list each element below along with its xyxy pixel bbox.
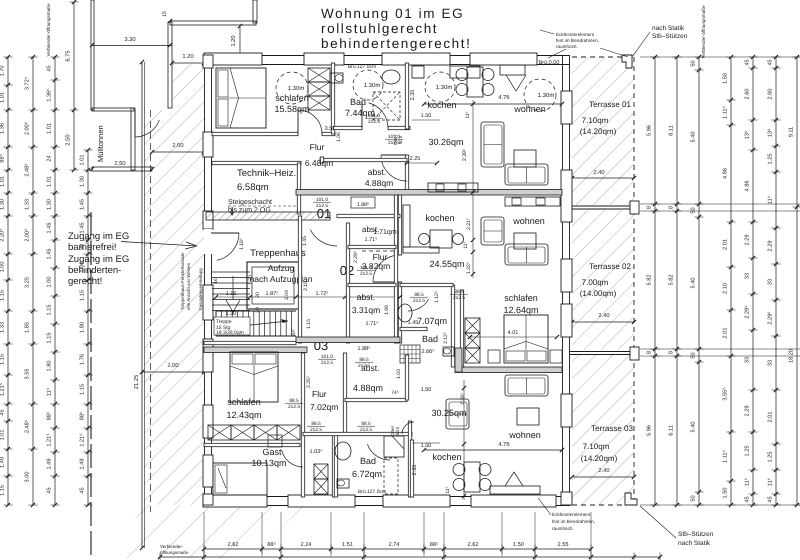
nightstand s02 l [488, 350, 500, 363]
svg-text:gerecht!: gerecht! [68, 276, 102, 287]
svg-text:Steigeschacht: Steigeschacht [228, 198, 272, 206]
dim chain right 5 [752, 57, 754, 505]
svg-text:212.5: 212.5 [453, 295, 465, 301]
svg-text:nach Statik: nach Statik [678, 540, 711, 547]
door bad01 [369, 103, 388, 128]
elevator shaft [247, 262, 299, 309]
west wall pier 3 [203, 211, 213, 229]
wall bad03 east [408, 421, 411, 497]
dim chain bottom 1 [204, 548, 591, 550]
svg-text:2.00⁵: 2.00⁵ [25, 228, 31, 241]
svg-text:Eckfensterelement: Eckfensterelement [552, 512, 591, 517]
niche 1.88 apt01 [351, 197, 375, 208]
svg-text:1.33: 1.33 [0, 322, 6, 333]
svg-text:212.5: 212.5 [358, 363, 370, 369]
stair wall south [204, 341, 296, 344]
wall corridor03 east upper [343, 353, 346, 434]
stairs arrow [222, 321, 288, 328]
svg-text:19.3/28.0qm: 19.3/28.0qm [216, 330, 244, 336]
svg-text:1.88⁵: 1.88⁵ [357, 202, 369, 208]
svg-text:1.49: 1.49 [0, 457, 6, 468]
svg-text:1.15: 1.15 [0, 290, 6, 301]
svg-text:2.60: 2.60 [768, 89, 774, 100]
south wall pier 1 [203, 495, 267, 507]
south wall pier 4 [471, 495, 556, 507]
wall corridor03 west [301, 353, 304, 497]
svg-text:Verblender-öffnungsmaße: Verblender-öffnungsmaße [701, 5, 706, 58]
svg-text:1.87⁵: 1.87⁵ [266, 291, 279, 297]
svg-text:2.40: 2.40 [598, 312, 609, 319]
svg-text:3.55: 3.55 [25, 369, 31, 380]
svg-text:1.11⁵: 1.11⁵ [723, 106, 729, 119]
wall schlafen01 south [212, 132, 298, 135]
dim 2.40 T01 [572, 177, 634, 179]
sofa01 right [505, 164, 548, 185]
svg-text:8: 8 [647, 351, 653, 354]
svg-text:2.21⁵: 2.21⁵ [466, 218, 472, 230]
wall bad03 west [334, 434, 337, 497]
svg-text:raumhoch.: raumhoch. [552, 526, 574, 531]
svg-text:15: 15 [162, 11, 168, 17]
wing north wall high [170, 21, 256, 25]
wall abst01 top [320, 158, 407, 161]
dim chain left 1 [7, 57, 9, 505]
bad01 shower [373, 92, 400, 120]
dim chain right 4 [730, 57, 732, 505]
west wall pier 4 [203, 285, 213, 320]
wing dim 3.30 line [92, 45, 172, 47]
west wall pier 5 [203, 339, 213, 372]
svg-text:1.06: 1.06 [336, 132, 342, 142]
svg-text:5.82: 5.82 [647, 275, 653, 286]
svg-text:1.01: 1.01 [80, 155, 86, 166]
svg-text:6.11: 6.11 [669, 125, 675, 135]
svg-text:212.5: 212.5 [316, 203, 328, 209]
svg-text:abst.: abst. [368, 167, 386, 177]
bad03 wc [337, 479, 349, 488]
wing east wall high [253, 0, 257, 23]
wall gast north [204, 443, 300, 446]
svg-text:6.11: 6.11 [669, 425, 675, 435]
wall flur/kochen x407 [405, 63, 408, 129]
svg-text:4.76: 4.76 [498, 94, 509, 101]
svg-text:1.00: 1.00 [47, 277, 53, 288]
svg-text:(14.20qm): (14.20qm) [581, 454, 618, 463]
svg-text:2.40: 2.40 [598, 467, 609, 474]
stairs outline [216, 310, 296, 312]
svg-text:88⁵: 88⁵ [267, 542, 276, 548]
svg-text:Fassadenverkleidung: Fassadenverkleidung [198, 268, 203, 310]
wall schlafen01/bad [331, 63, 334, 134]
south wall pier 2 [288, 495, 355, 507]
svg-text:1.36⁵: 1.36⁵ [47, 88, 53, 101]
dim 2.40 T03 [572, 476, 634, 478]
nightstand s02 r [550, 350, 562, 363]
wall abst03 [345, 398, 407, 401]
svg-text:2.40: 2.40 [593, 169, 604, 176]
svg-text:2.29: 2.29 [768, 241, 774, 252]
muelltonnen door arc [135, 120, 159, 137]
svg-text:(14.00qm): (14.00qm) [580, 289, 617, 298]
svg-text:1.30: 1.30 [226, 311, 237, 317]
svg-text:1.70: 1.70 [0, 66, 6, 77]
svg-text:5.82: 5.82 [669, 275, 675, 286]
column NE [622, 55, 632, 68]
entrance door arcs [211, 232, 239, 234]
terrace divider 2 [570, 351, 634, 353]
svg-text:7.10qm: 7.10qm [582, 116, 609, 125]
svg-text:rollstuhlgerecht: rollstuhlgerecht [321, 21, 438, 36]
svg-text:33: 33 [745, 357, 751, 363]
svg-text:Verblender-: Verblender- [160, 544, 184, 549]
door bad02 [408, 299, 429, 311]
east wall pier 2 [561, 170, 572, 222]
svg-text:2.29⁵: 2.29⁵ [745, 305, 751, 318]
corridor wall east x400 [398, 195, 401, 255]
svg-text:öffnungsmaße: öffnungsmaße [160, 550, 189, 555]
svg-text:1.30m: 1.30m [436, 84, 453, 91]
svg-text:1.25: 1.25 [768, 452, 774, 463]
svg-text:212.5: 212.5 [310, 427, 322, 433]
north wall pier 1 [204, 53, 262, 65]
svg-text:1.30: 1.30 [80, 176, 86, 187]
svg-text:88⁵: 88⁵ [47, 412, 53, 421]
dim chain left 2 [32, 57, 34, 505]
svg-text:1.01: 1.01 [0, 92, 6, 103]
svg-text:Bad: Bad [350, 97, 366, 107]
svg-text:barrierefrei!: barrierefrei! [68, 242, 117, 253]
svg-text:1.15: 1.15 [47, 305, 53, 316]
dim 1.20 vert [239, 26, 241, 56]
yard hatch [110, 505, 305, 558]
svg-text:1.71⁵: 1.71⁵ [366, 321, 379, 327]
terrace dashed top [572, 56, 634, 58]
svg-text:3.55⁵: 3.55⁵ [723, 387, 729, 400]
walkway left edge [141, 62, 143, 548]
svg-text:1.50: 1.50 [421, 387, 432, 393]
svg-text:6.75: 6.75 [65, 50, 72, 61]
svg-text:schlafen: schlafen [275, 93, 309, 103]
svg-text:33: 33 [745, 273, 751, 279]
table01 [514, 150, 536, 167]
svg-text:88⁵: 88⁵ [0, 154, 6, 163]
east wall lines [562, 55, 564, 505]
svg-text:7.00qm: 7.00qm [582, 278, 609, 287]
svg-text:2.29⁵: 2.29⁵ [768, 311, 774, 324]
svg-text:1.30: 1.30 [0, 199, 6, 210]
svg-text:6.58qm: 6.58qm [237, 182, 269, 193]
svg-text:1.20: 1.20 [230, 35, 237, 46]
svg-text:Brü.127.0cm: Brü.127.0cm [358, 489, 386, 495]
wall abst02 east [394, 195, 397, 343]
svg-text:1.71⁵: 1.71⁵ [365, 237, 378, 243]
svg-text:kochen: kochen [432, 452, 461, 462]
north wall pier 3 [382, 53, 450, 65]
svg-text:12.43qm: 12.43qm [226, 410, 261, 420]
svg-text:21.25: 21.25 [133, 375, 140, 390]
west wall pier 1 [203, 55, 213, 68]
svg-text:2.50: 2.50 [114, 160, 125, 167]
circle 1.30 bad01 [353, 70, 383, 100]
dim chain right 1 [654, 57, 656, 505]
svg-text:2.25: 2.25 [410, 156, 421, 162]
svg-text:Wohnung 01 im EG: Wohnung 01 im EG [321, 6, 464, 21]
svg-text:4.86: 4.86 [723, 168, 729, 179]
entrance door gap [204, 229, 212, 254]
svg-text:2.48⁵: 2.48⁵ [25, 163, 31, 176]
svg-text:1.21⁵: 1.21⁵ [47, 433, 53, 446]
wall abst02 west [346, 223, 349, 343]
svg-text:licht: licht [395, 426, 400, 435]
svg-text:3.25: 3.25 [25, 277, 31, 288]
svg-text:behindertengerecht!: behindertengerecht! [321, 36, 472, 51]
svg-text:1.80: 1.80 [47, 361, 53, 372]
party wall 02/03 west [204, 347, 307, 353]
stair wall east [298, 216, 301, 343]
svg-text:45: 45 [47, 65, 53, 71]
svg-text:15.58qm: 15.58qm [274, 104, 309, 114]
dining table 01 [467, 67, 483, 97]
svg-text:11⁵: 11⁵ [463, 241, 469, 248]
bad02 wc [443, 347, 454, 356]
closet schlafen01 [308, 68, 330, 82]
svg-text:2.55: 2.55 [558, 542, 569, 548]
svg-text:1.11⁵: 1.11⁵ [723, 450, 729, 463]
svg-text:2.48⁵: 2.48⁵ [25, 420, 31, 433]
svg-text:8: 8 [669, 351, 675, 354]
svg-text:5.40: 5.40 [691, 422, 697, 433]
svg-text:Treppenhaus-Fensterfassade: Treppenhaus-Fensterfassade [180, 252, 185, 310]
svg-text:1.01: 1.01 [47, 123, 53, 134]
west wall pier 8 [203, 494, 213, 505]
svg-text:2.10: 2.10 [723, 283, 729, 294]
dim 3.30 [90, 43, 94, 47]
svg-text:5.96: 5.96 [647, 425, 653, 436]
bottom ext lines [203, 512, 205, 556]
svg-text:1.50: 1.50 [723, 488, 729, 499]
bed schlafen01 [216, 68, 266, 128]
stair dim line [216, 296, 400, 298]
east wall pier 6 [561, 492, 572, 505]
svg-text:45: 45 [0, 409, 6, 415]
svg-text:1.88⁵: 1.88⁵ [358, 346, 371, 352]
svg-text:3.00: 3.00 [25, 472, 31, 483]
svg-text:33: 33 [768, 279, 774, 285]
svg-text:Stb–Stützen: Stb–Stützen [678, 531, 714, 538]
svg-text:4.01: 4.01 [508, 330, 519, 336]
bad01 washbasin [382, 70, 400, 84]
east wall pier 5 [561, 394, 572, 427]
dim 4.76 03 [424, 449, 562, 451]
svg-text:8: 8 [647, 206, 653, 209]
sofa03 left [446, 399, 469, 429]
svg-text:2.12⁵: 2.12⁵ [443, 332, 449, 344]
svg-text:fest im blendrahmen,: fest im blendrahmen, [552, 519, 595, 524]
svg-text:Mülltonnen: Mülltonnen [96, 125, 105, 162]
svg-text:3.82qm: 3.82qm [362, 261, 390, 271]
sofa03 top [505, 375, 548, 396]
svg-text:212.5: 212.5 [360, 427, 372, 433]
svg-text:1.30m: 1.30m [538, 92, 555, 99]
bad01 wc [330, 73, 343, 83]
east wall pier 3 [561, 259, 572, 292]
wall abst02 div1 [348, 245, 396, 248]
svg-text:45: 45 [768, 59, 774, 65]
sofa02 left [481, 217, 504, 245]
wall kochen03 [410, 440, 413, 497]
svg-text:5.40: 5.40 [691, 278, 697, 289]
svg-text:18.20: 18.20 [789, 349, 795, 363]
kochen02 table [430, 230, 452, 248]
svg-text:1.33: 1.33 [25, 199, 31, 210]
svg-text:Eckfensterelement: Eckfensterelement [556, 32, 595, 37]
terrace dashed bottom [572, 504, 634, 506]
bad03 shower [384, 436, 404, 457]
north wall pier 2 [304, 53, 344, 65]
column E mid2 [630, 347, 639, 360]
svg-text:1.80: 1.80 [80, 322, 86, 333]
svg-text:wohnen: wohnen [508, 430, 541, 440]
bed schlafen02 [504, 315, 548, 363]
label Treppe [214, 317, 250, 335]
svg-text:20: 20 [255, 307, 261, 313]
party wall 02/03 step [455, 348, 462, 372]
walkway hatch [144, 62, 204, 505]
svg-text:1.01: 1.01 [0, 430, 6, 441]
svg-text:1.99: 1.99 [384, 305, 390, 315]
svg-text:88⁵: 88⁵ [430, 542, 439, 548]
svg-text:50: 50 [691, 207, 697, 213]
muelltonnen room [92, 108, 134, 111]
svg-text:88⁵: 88⁵ [80, 412, 86, 421]
wall abst02 div2 [348, 283, 396, 286]
svg-text:2.01: 2.01 [768, 412, 774, 423]
svg-text:45: 45 [745, 59, 751, 65]
svg-text:Aufzug: Aufzug [268, 263, 295, 273]
door gast arc [282, 450, 303, 467]
svg-text:50: 50 [691, 60, 697, 66]
svg-text:2.01: 2.01 [723, 239, 729, 250]
party wall 02/03 east [455, 367, 562, 373]
sideboard01 [428, 183, 478, 192]
svg-text:1.21⁵: 1.21⁵ [0, 383, 6, 396]
svg-text:fest im blendrahmen,: fest im blendrahmen, [556, 38, 599, 43]
dim chain right 3 [698, 57, 700, 505]
wall corridor03 east lower [332, 434, 335, 497]
svg-text:45: 45 [47, 487, 53, 493]
svg-text:1.50: 1.50 [723, 73, 729, 84]
svg-text:2.00: 2.00 [167, 362, 178, 369]
party wall 01/02 [296, 190, 562, 196]
svg-text:13⁵: 13⁵ [768, 129, 774, 138]
dim 2.00 mid [142, 371, 204, 373]
svg-text:1.30m: 1.30m [364, 82, 381, 89]
west wall pier 7 [203, 455, 213, 487]
svg-text:2.25⁵: 2.25⁵ [306, 376, 312, 388]
wall bad01 south [333, 126, 362, 129]
svg-text:1.50: 1.50 [421, 443, 432, 449]
svg-text:3.31qm: 3.31qm [352, 305, 380, 315]
svg-text:2.29⁶: 2.29⁶ [353, 251, 359, 263]
svg-text:45: 45 [768, 496, 774, 502]
svg-text:3.51: 3.51 [325, 126, 336, 132]
east wall pier 1 [561, 91, 572, 124]
svg-text:1.03⁵: 1.03⁵ [310, 449, 323, 455]
column SE [625, 493, 637, 505]
svg-text:30⁵: 30⁵ [291, 329, 297, 337]
bad02 basin [398, 304, 412, 322]
circle 1.30 schlafen01 [276, 72, 308, 104]
svg-text:30.26qm: 30.26qm [428, 137, 463, 147]
south wall pier 3 [383, 495, 450, 507]
svg-text:Zugang im EG: Zugang im EG [68, 254, 129, 265]
svg-text:74⁵: 74⁵ [391, 390, 399, 396]
svg-text:8: 8 [669, 206, 675, 209]
svg-text:1.45: 1.45 [47, 223, 53, 234]
column E mid1 [630, 201, 639, 214]
dim 6.75 line [73, 2, 75, 170]
wall technik right [297, 163, 300, 214]
terrace 1 hatch [572, 57, 634, 205]
svg-text:1.12⁶: 1.12⁶ [434, 291, 440, 303]
svg-text:2.35: 2.35 [412, 465, 418, 476]
svg-text:7.10qm: 7.10qm [583, 442, 610, 451]
svg-text:12.64qm: 12.64qm [503, 305, 538, 315]
west wall pier 2 [203, 132, 213, 157]
svg-text:ehe Ansicht von Westen: ehe Ansicht von Westen [186, 262, 191, 310]
closet schlafen02 [465, 318, 480, 333]
stairs flight west arrow [232, 276, 234, 300]
wall flur02 dash [362, 250, 396, 252]
north wall pier 4 [470, 53, 537, 65]
wall bad03 north [303, 432, 412, 435]
svg-text:1.15: 1.15 [47, 333, 53, 344]
svg-text:1.15: 1.15 [80, 384, 86, 395]
bench01 north [500, 65, 525, 75]
west wall lines [204, 55, 206, 505]
svg-text:1.25: 1.25 [768, 154, 774, 165]
svg-text:1.70: 1.70 [248, 275, 254, 285]
svg-text:Flur: Flur [312, 389, 327, 399]
svg-text:11⁵: 11⁵ [465, 111, 471, 118]
svg-text:2.35: 2.35 [410, 90, 416, 101]
svg-text:Terrasse 03: Terrasse 03 [591, 424, 633, 433]
terrace dashed boundary east [633, 57, 635, 505]
svg-text:1.18⁵: 1.18⁵ [239, 238, 245, 250]
circle 1.30 kochen01 [425, 72, 455, 102]
dim 1.20 horiz [172, 62, 204, 64]
stairs treads [215, 311, 217, 336]
dim chain right 7 [796, 57, 798, 505]
svg-text:1.49: 1.49 [80, 459, 86, 470]
svg-text:1.45: 1.45 [47, 249, 53, 260]
svg-text:7.07qm: 7.07qm [417, 316, 447, 326]
svg-text:Brü.127.0cm: Brü.127.0cm [348, 64, 376, 70]
svg-text:1.51: 1.51 [342, 542, 353, 548]
dim chain left 3 [54, 57, 56, 505]
svg-text:1.36: 1.36 [0, 123, 6, 134]
svg-text:Technik–Heiz.: Technik–Heiz. [237, 168, 296, 179]
door 02 arc [373, 255, 400, 282]
door schlafen01 [298, 110, 322, 134]
svg-text:wohnen: wohnen [512, 216, 545, 226]
svg-text:2.19: 2.19 [303, 281, 309, 291]
wall 01 door [337, 214, 400, 217]
bed schlafen03 [230, 352, 278, 402]
svg-text:2.00: 2.00 [172, 142, 183, 149]
svg-text:2.62: 2.62 [468, 542, 479, 548]
svg-text:2.00⁵: 2.00⁵ [25, 122, 31, 135]
